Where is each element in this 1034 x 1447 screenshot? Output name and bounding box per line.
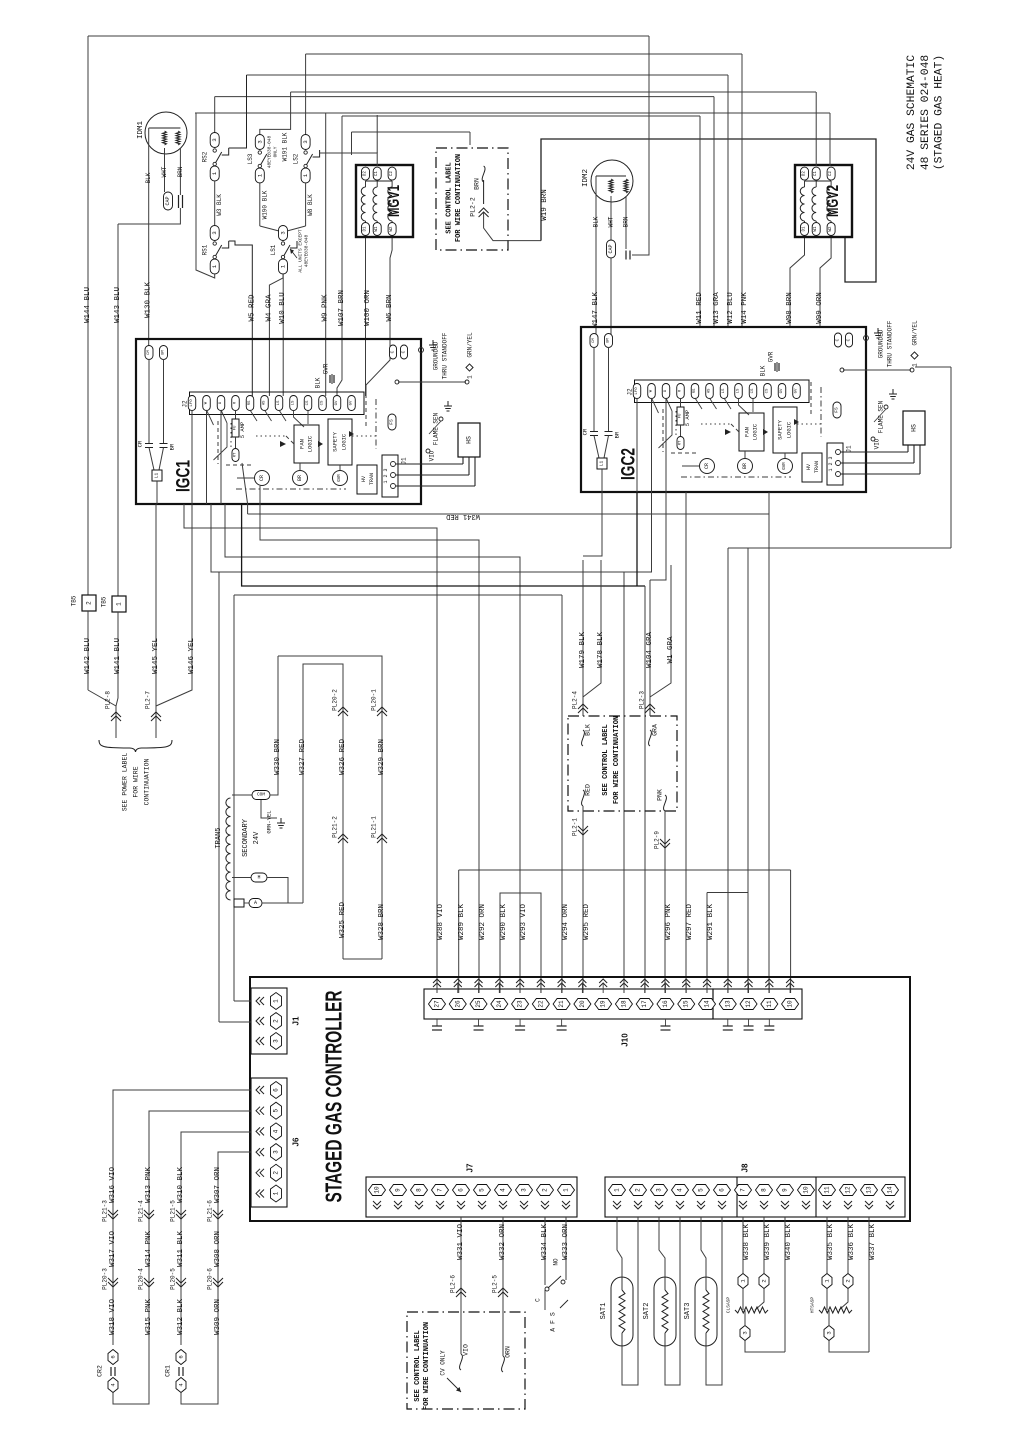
svg-text:PL21-5: PL21-5 (170, 1200, 177, 1222)
svg-text:GRN-YEL: GRN-YEL (266, 810, 273, 833)
svg-text:ALL UNITS EXCEPT: ALL UNITS EXCEPT (298, 229, 304, 273)
svg-text:W317 VIO: W317 VIO (109, 1231, 117, 1268)
svg-text:3: 3 (656, 1188, 663, 1192)
svg-text:2: 2 (273, 1019, 280, 1023)
svg-text:5: 5 (698, 1188, 705, 1192)
svg-text:LFO: LFO (635, 387, 639, 395)
svg-text:CR1: CR1 (165, 1365, 172, 1377)
svg-text:12: 12 (845, 1186, 852, 1194)
svg-text:ORN: ORN (505, 1346, 512, 1358)
svg-text:HS: HS (263, 400, 267, 405)
svg-text:LS2: LS2 (293, 153, 300, 164)
svg-text:W1 GRA: W1 GRA (667, 636, 675, 664)
svg-text:W293 VIO: W293 VIO (520, 904, 528, 941)
svg-text:J10: J10 (621, 1033, 630, 1047)
svg-text:8: 8 (416, 1188, 423, 1192)
svg-text:PL2-1: PL2-1 (572, 818, 579, 836)
svg-text:CR: CR (259, 475, 265, 481)
svg-text:GVR: GVR (323, 363, 330, 374)
svg-text:GVR: GVR (768, 351, 775, 362)
svg-text:SECONDARY: SECONDARY (242, 818, 250, 857)
svg-text:COM: COM (257, 792, 265, 798)
svg-text:24: 24 (496, 1000, 503, 1008)
svg-text:W2: W2 (390, 226, 394, 232)
svg-text:4: 4 (500, 1188, 507, 1192)
svg-text:RS1: RS1 (202, 244, 209, 255)
svg-text:L1: L1 (599, 461, 605, 467)
svg-text:1 2 3: 1 2 3 (828, 456, 834, 471)
svg-text:W338 BLK: W338 BLK (743, 1224, 751, 1261)
svg-text:SEE CONTROL LABEL: SEE CONTROL LABEL (414, 1330, 422, 1401)
svg-text:16: 16 (662, 1000, 669, 1008)
svg-text:PL2-2: PL2-2 (470, 197, 477, 217)
svg-text:2: 2 (845, 1279, 852, 1282)
svg-text:11: 11 (824, 1186, 831, 1194)
svg-text:W294 ORN: W294 ORN (562, 904, 570, 940)
svg-text:4: 4 (677, 1188, 684, 1192)
svg-text:10: 10 (803, 1186, 810, 1194)
svg-text:FOR WIRE CONTINUATION: FOR WIRE CONTINUATION (455, 154, 463, 242)
svg-text:W313 PNK: W313 PNK (145, 1167, 153, 1204)
svg-text:1 2 3: 1 2 3 (383, 468, 389, 483)
svg-text:2: 2 (542, 1188, 549, 1192)
svg-text:WHT: WHT (608, 216, 615, 227)
svg-text:W331 VIO: W331 VIO (457, 1224, 465, 1261)
svg-text:GROUNDED: GROUNDED (878, 329, 885, 358)
svg-text:W328 BRN: W328 BRN (378, 904, 386, 940)
svg-text:C: C (390, 350, 396, 353)
svg-text:PL2-8: PL2-8 (105, 691, 112, 709)
svg-text:3: 3 (273, 1150, 280, 1154)
svg-text:3: 3 (280, 231, 287, 234)
svg-text:22: 22 (537, 1000, 544, 1008)
svg-text:6: 6 (110, 1355, 117, 1358)
svg-text:W107 BRN: W107 BRN (338, 290, 346, 326)
svg-text:W318 VIO: W318 VIO (109, 1299, 117, 1336)
svg-text:W147 BLK: W147 BLK (592, 292, 600, 329)
svg-text:W310 BLK: W310 BLK (177, 1167, 185, 1204)
svg-text:GRN/YEL: GRN/YEL (912, 320, 919, 346)
svg-text:LS: LS (722, 388, 726, 393)
svg-text:19: 19 (600, 1000, 607, 1008)
svg-text:RED: RED (585, 784, 592, 796)
svg-text:W141 BLU: W141 BLU (114, 638, 122, 674)
svg-text:W329 BRN: W329 BRN (378, 739, 386, 775)
svg-text:LFO: LFO (190, 399, 194, 407)
svg-text:BRN: BRN (623, 216, 630, 227)
svg-text:HS: HS (911, 424, 918, 432)
svg-text:12: 12 (745, 1000, 752, 1008)
svg-text:9: 9 (395, 1188, 402, 1192)
svg-text:4: 4 (273, 1129, 280, 1133)
svg-text:GROUNDED: GROUNDED (433, 341, 440, 370)
svg-text:SEE POWER LABEL: SEE POWER LABEL (122, 753, 129, 812)
svg-text:LOGIC: LOGIC (752, 423, 759, 440)
svg-text:27: 27 (434, 1000, 441, 1008)
svg-text:17: 17 (641, 1000, 648, 1008)
svg-text:2: 2 (761, 1279, 768, 1282)
svg-text:W146 YEL: W146 YEL (188, 638, 196, 675)
svg-text:THRU STANDOFF: THRU STANDOFF (442, 332, 449, 379)
svg-text:W315 PNK: W315 PNK (145, 1299, 153, 1336)
svg-text:W335 BLK: W335 BLK (827, 1224, 835, 1261)
svg-text:1: 1 (467, 375, 474, 379)
svg-text:3: 3 (521, 1188, 528, 1192)
svg-text:BR: BR (169, 443, 176, 450)
svg-text:24V: 24V (253, 831, 261, 844)
svg-text:CAP: CAP (608, 244, 614, 253)
svg-text:CS: CS (766, 388, 770, 393)
svg-text:W100 ORN: W100 ORN (364, 290, 372, 326)
svg-text:PL21-6: PL21-6 (207, 1200, 214, 1222)
svg-text:14: 14 (887, 1186, 894, 1194)
svg-text:W289 BLK: W289 BLK (458, 904, 466, 941)
svg-text:48EYE038-048: 48EYE038-048 (304, 234, 310, 267)
svg-text:PL2-9: PL2-9 (654, 831, 661, 849)
svg-text:W1: W1 (375, 226, 379, 232)
svg-text:TB5: TB5 (101, 596, 108, 607)
svg-text:W6 BRN: W6 BRN (386, 294, 394, 321)
svg-text:CM: CM (147, 350, 151, 355)
svg-text:GVR: GVR (338, 474, 342, 482)
svg-text:TRAN: TRAN (369, 473, 375, 485)
svg-text:15: 15 (683, 1000, 690, 1008)
svg-text:FOR WIRE: FOR WIRE (133, 766, 140, 797)
svg-text:W337 BLK: W337 BLK (869, 1224, 877, 1261)
svg-text:8: 8 (761, 1188, 768, 1192)
svg-text:W14 PNK: W14 PNK (741, 292, 749, 324)
svg-text:W12 BLU: W12 BLU (727, 292, 735, 324)
svg-text:W336 BLK: W336 BLK (848, 1224, 856, 1261)
svg-text:48 SERIES 024-048: 48 SERIES 024-048 (920, 55, 932, 170)
svg-text:W130 BLK: W130 BLK (145, 282, 153, 319)
svg-text:10: 10 (374, 1186, 381, 1194)
svg-text:W308 ORN: W308 ORN (214, 1231, 222, 1267)
svg-text:D1: D1 (364, 226, 368, 232)
svg-text:W291 BLK: W291 BLK (707, 904, 715, 941)
svg-text:C1: C1 (375, 171, 379, 177)
svg-text:48EYE038-048: 48EYE038-048 (267, 135, 273, 168)
svg-text:BR: BR (614, 431, 621, 438)
svg-text:RS2: RS2 (202, 151, 209, 162)
svg-text:CAP: CAP (165, 196, 171, 205)
svg-text:W8 BLK: W8 BLK (307, 194, 314, 216)
svg-text:W326 RED: W326 RED (339, 739, 347, 776)
svg-text:W314 PNK: W314 PNK (145, 1231, 153, 1268)
svg-text:W309 ORN: W309 ORN (214, 1299, 222, 1335)
svg-text:24V GAS SCHEMATIC: 24V GAS SCHEMATIC (906, 55, 918, 170)
svg-text:CM: CM (592, 338, 596, 343)
svg-text:W2: W2 (829, 226, 833, 232)
svg-text:CR: CR (582, 428, 589, 435)
svg-text:LS3: LS3 (247, 153, 254, 164)
svg-text:IGC1: IGC1 (174, 460, 195, 492)
svg-text:3: 3 (826, 1331, 833, 1334)
svg-text:3: 3 (211, 138, 218, 141)
svg-text:W292 ORN: W292 ORN (479, 904, 487, 940)
svg-text:LS1: LS1 (270, 244, 277, 255)
svg-text:STAGED GAS CONTROLLER: STAGED GAS CONTROLLER (321, 990, 347, 1202)
svg-text:W330 BRN: W330 BRN (274, 739, 282, 775)
svg-text:GRA: GRA (652, 724, 659, 736)
svg-text:W145 YEL: W145 YEL (152, 638, 160, 675)
svg-text:CS: CS (321, 400, 325, 405)
svg-text:W341 RED: W341 RED (446, 512, 480, 520)
svg-text:W333 ORN: W333 ORN (562, 1224, 570, 1260)
svg-text:PNK: PNK (657, 789, 664, 801)
svg-text:BLK: BLK (593, 216, 600, 227)
svg-text:HS: HS (466, 436, 473, 444)
svg-text:W190 BLK: W190 BLK (261, 190, 268, 219)
svg-text:J7: J7 (466, 1163, 475, 1172)
svg-text:W307 ORN: W307 ORN (214, 1167, 222, 1203)
svg-text:BLK: BLK (585, 724, 592, 736)
svg-text:C2: C2 (829, 171, 833, 177)
svg-text:FOR WIRE CONTINUATION: FOR WIRE CONTINUATION (613, 716, 621, 804)
svg-text:6: 6 (273, 1088, 280, 1092)
svg-text:H: H (257, 875, 260, 881)
svg-text:2: 2 (273, 1171, 280, 1175)
svg-text:W340 BLK: W340 BLK (785, 1224, 793, 1261)
svg-text:HV: HV (361, 476, 367, 482)
svg-text:BLK: BLK (760, 365, 767, 376)
svg-text:21: 21 (558, 1000, 565, 1008)
svg-text:5 AMP: 5 AMP (239, 422, 246, 439)
svg-text:PL20-5: PL20-5 (170, 1268, 177, 1290)
svg-text:CONTINUATION: CONTINUATION (144, 758, 151, 805)
svg-text:PL20-6: PL20-6 (207, 1268, 214, 1290)
svg-text:FS: FS (834, 407, 840, 413)
svg-text:10: 10 (787, 1000, 794, 1008)
svg-text:TB5: TB5 (71, 595, 78, 606)
svg-text:W334 BLK: W334 BLK (541, 1224, 549, 1261)
svg-text:FOR WIRE CONTINUATION: FOR WIRE CONTINUATION (423, 1322, 431, 1410)
svg-text:ONLY: ONLY (273, 146, 279, 157)
svg-text:3: 3 (302, 140, 309, 143)
svg-text:W19 BRN: W19 BRN (541, 189, 549, 221)
svg-text:CR: CR (137, 440, 144, 447)
svg-text:BM: BM (607, 338, 611, 343)
svg-text:3: 3 (273, 1039, 280, 1043)
svg-text:HV: HV (806, 464, 812, 470)
svg-text:GRN/YEL: GRN/YEL (467, 332, 474, 358)
svg-text:CLSASP: CLSASP (726, 1297, 732, 1314)
svg-text:PL21-3: PL21-3 (102, 1200, 109, 1222)
svg-text:W339 BLK: W339 BLK (764, 1224, 772, 1261)
svg-text:FU: FU (679, 413, 683, 418)
svg-text:6: 6 (719, 1188, 726, 1192)
svg-text:SAT3: SAT3 (684, 1303, 692, 1320)
svg-text:PL2-5: PL2-5 (492, 1275, 499, 1293)
svg-text:PL20-3: PL20-3 (102, 1268, 109, 1290)
svg-text:13: 13 (866, 1186, 873, 1194)
svg-text:GV: GV (350, 400, 354, 405)
svg-text:W144 BLU: W144 BLU (84, 287, 92, 323)
svg-text:CV ONLY: CV ONLY (440, 1350, 447, 1376)
svg-text:CS: CS (306, 400, 310, 405)
svg-text:23: 23 (517, 1000, 524, 1008)
svg-text:BR: BR (297, 475, 303, 481)
svg-text:3: 3 (211, 231, 218, 234)
svg-text:W10 BLU: W10 BLU (279, 292, 287, 324)
svg-text:20: 20 (579, 1000, 586, 1008)
svg-text:J2: J2 (182, 400, 189, 408)
svg-text:LOGIC: LOGIC (341, 433, 348, 450)
svg-text:LOGIC: LOGIC (307, 435, 314, 452)
svg-text:BM: BM (162, 350, 166, 355)
svg-text:FS: FS (389, 419, 395, 425)
svg-text:W11 RED: W11 RED (696, 292, 704, 324)
svg-text:THRU STANDOFF: THRU STANDOFF (887, 320, 894, 367)
svg-text:5: 5 (479, 1188, 486, 1192)
svg-text:SAT2: SAT2 (643, 1303, 651, 1320)
svg-text:BRN: BRN (474, 178, 481, 190)
svg-text:D1: D1 (803, 226, 807, 232)
svg-text:VIO: VIO (463, 1344, 470, 1356)
svg-text:J6: J6 (292, 1137, 301, 1146)
svg-text:W98 BRN: W98 BRN (786, 292, 794, 324)
svg-text:BLK: BLK (145, 172, 152, 183)
svg-text:1: 1 (912, 363, 919, 367)
svg-text:GV: GV (335, 400, 339, 405)
svg-text:LS: LS (292, 400, 296, 405)
svg-text:HTSASP: HTSASP (810, 1297, 816, 1314)
svg-text:W9 PNK: W9 PNK (322, 294, 330, 322)
svg-text:FAN: FAN (299, 439, 306, 449)
svg-text:WHT: WHT (161, 166, 168, 177)
svg-text:1: 1 (614, 1188, 621, 1192)
svg-text:(STAGED GAS HEAT): (STAGED GAS HEAT) (934, 55, 946, 170)
svg-text:1: 1 (563, 1188, 570, 1192)
svg-text:W295 RED: W295 RED (583, 904, 591, 941)
svg-text:IDM2: IDM2 (582, 169, 590, 187)
svg-text:BR: BR (742, 463, 748, 469)
svg-text:C: C (846, 338, 852, 341)
svg-text:W290 BLK: W290 BLK (500, 904, 508, 941)
svg-text:CR2: CR2 (97, 1365, 104, 1377)
svg-text:W325 RED: W325 RED (339, 902, 347, 939)
svg-text:C: C (535, 1298, 542, 1302)
svg-text:C: C (401, 350, 407, 353)
svg-text:11: 11 (766, 1000, 773, 1008)
svg-text:W5 RED: W5 RED (248, 294, 256, 322)
svg-text:2: 2 (86, 601, 93, 605)
svg-text:PL21-4: PL21-4 (138, 1200, 145, 1222)
svg-text:FAN: FAN (744, 427, 751, 437)
svg-text:A: A (254, 900, 257, 906)
svg-text:GV: GV (780, 388, 784, 393)
svg-text:BRN: BRN (177, 166, 184, 177)
svg-text:W288 VIO: W288 VIO (437, 904, 445, 941)
svg-text:LS: LS (277, 400, 281, 405)
svg-text:13: 13 (724, 1000, 731, 1008)
svg-text:C: C (835, 338, 841, 341)
svg-text:W332 ORN: W332 ORN (499, 1224, 507, 1260)
svg-text:TRAN5: TRAN5 (215, 827, 223, 848)
svg-text:26: 26 (454, 1000, 461, 1008)
svg-text:PL2-4: PL2-4 (572, 691, 579, 709)
svg-text:W142 BLU: W142 BLU (84, 638, 92, 674)
svg-text:J2: J2 (627, 388, 634, 396)
svg-text:9: 9 (782, 1188, 789, 1192)
svg-text:W296 PNK: W296 PNK (665, 904, 673, 941)
svg-text:SEE CONTROL LABEL: SEE CONTROL LABEL (446, 162, 454, 233)
svg-text:1: 1 (273, 999, 280, 1003)
svg-text:SAFETY: SAFETY (332, 431, 339, 452)
svg-text:RT: RT (679, 440, 683, 445)
svg-text:W4 GRA: W4 GRA (265, 294, 273, 322)
svg-text:5 AMP: 5 AMP (684, 410, 691, 427)
svg-text:PL20-1: PL20-1 (371, 689, 378, 711)
svg-text:PL20-2: PL20-2 (332, 689, 339, 711)
svg-text:LOGIC: LOGIC (786, 421, 793, 438)
svg-text:PL21-1: PL21-1 (371, 816, 378, 838)
svg-text:6: 6 (178, 1355, 185, 1358)
svg-text:SAT1: SAT1 (600, 1303, 608, 1320)
svg-text:W312 BLK: W312 BLK (177, 1299, 185, 1336)
svg-text:SAFETY: SAFETY (777, 419, 784, 440)
svg-text:5: 5 (273, 1109, 280, 1113)
svg-text:IGC2: IGC2 (619, 448, 640, 480)
svg-text:14: 14 (704, 1000, 711, 1008)
svg-text:TRAN: TRAN (814, 461, 820, 473)
svg-text:J8: J8 (741, 1163, 750, 1172)
svg-text:GV: GV (795, 388, 799, 393)
svg-text:1: 1 (116, 602, 123, 606)
svg-text:25: 25 (475, 1000, 482, 1008)
svg-text:SEE CONTROL LABEL: SEE CONTROL LABEL (602, 724, 610, 795)
svg-text:6: 6 (458, 1188, 465, 1192)
svg-text:W179 BLK: W179 BLK (579, 632, 587, 669)
svg-text:PL2-6: PL2-6 (450, 1275, 457, 1293)
svg-text:W3 BLK: W3 BLK (216, 194, 223, 216)
svg-text:W13 GRA: W13 GRA (713, 292, 721, 324)
svg-text:W191 BLK: W191 BLK (282, 132, 289, 161)
svg-text:D2: D2 (364, 171, 368, 177)
svg-text:W316 VIO: W316 VIO (109, 1167, 117, 1204)
svg-text:PL2-7: PL2-7 (145, 691, 152, 709)
svg-text:C1: C1 (814, 171, 818, 177)
svg-text:W99 ORN: W99 ORN (816, 292, 824, 324)
svg-text:3: 3 (256, 140, 263, 143)
svg-text:A F S: A F S (550, 1312, 557, 1332)
svg-text:HS: HS (708, 388, 712, 393)
svg-text:BLK: BLK (315, 377, 322, 388)
svg-text:W1: W1 (814, 226, 818, 232)
svg-text:RS: RS (248, 400, 252, 405)
svg-text:18: 18 (620, 1000, 627, 1008)
svg-text:J1: J1 (292, 1016, 301, 1025)
svg-text:L1: L1 (154, 473, 160, 479)
svg-text:CS: CS (751, 388, 755, 393)
svg-text:D2: D2 (803, 171, 807, 177)
svg-text:W104 GRA: W104 GRA (646, 632, 654, 669)
svg-text:GVR: GVR (783, 462, 787, 470)
svg-text:NO: NO (553, 1258, 560, 1266)
svg-text:3: 3 (742, 1331, 749, 1334)
svg-text:7: 7 (437, 1188, 444, 1192)
svg-text:PL2-3: PL2-3 (639, 691, 646, 709)
svg-text:FU: FU (234, 425, 238, 430)
svg-text:IDM1: IDM1 (137, 121, 145, 140)
svg-text:W178 BLK: W178 BLK (597, 632, 605, 669)
svg-text:2: 2 (635, 1188, 642, 1192)
svg-text:CR: CR (704, 463, 710, 469)
svg-text:C2: C2 (390, 171, 394, 177)
svg-text:W297 RED: W297 RED (686, 904, 694, 941)
svg-text:PL20-4: PL20-4 (138, 1268, 145, 1290)
svg-text:LS: LS (737, 388, 741, 393)
